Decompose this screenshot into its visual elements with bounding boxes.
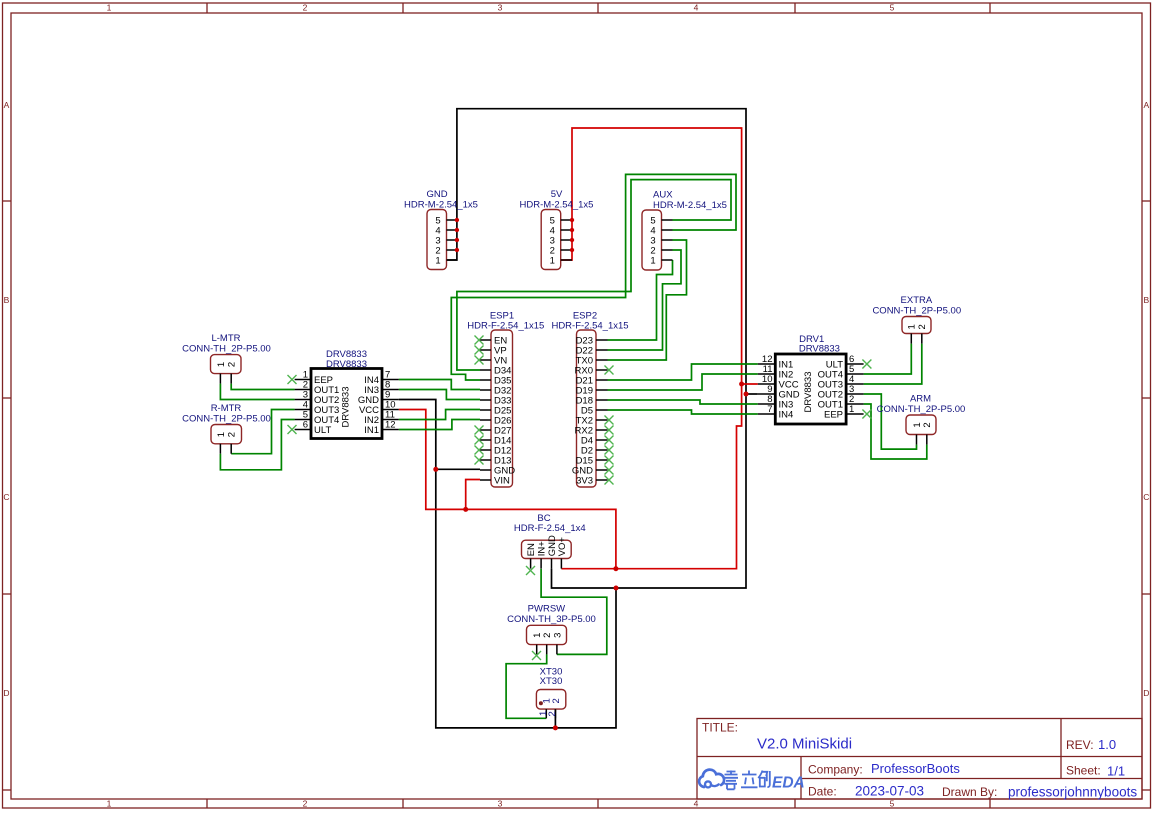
svg-text:2023-07-03: 2023-07-03 — [855, 784, 924, 799]
svg-text:D: D — [1143, 688, 1149, 698]
svg-text:2: 2 — [917, 324, 928, 329]
connector ESP2 HDR-F-2.54_1x15 — [551, 311, 628, 487]
wire GND net: header bus / top loop / right drop / BC GND run — [447, 109, 747, 588]
wire GND net: U1 pin9 to junction — [399, 400, 436, 470]
JLCEDA logo — [699, 770, 805, 792]
svg-text:IN4: IN4 — [779, 409, 794, 420]
wire L-MTR2 to U1 OUT1 — [231, 384, 294, 390]
svg-text:A: A — [4, 100, 10, 110]
wire U1 IN4 to ESP1 D32 — [399, 380, 480, 390]
svg-text:1: 1 — [107, 3, 112, 13]
svg-text:HDR-M-2.54_1x5: HDR-M-2.54_1x5 — [520, 200, 594, 211]
svg-text:5V: 5V — [551, 189, 563, 200]
junction dots GND bus — [455, 218, 459, 252]
connector EXTRA CONN-TH_2P-P5.00 — [872, 295, 961, 344]
no-connect X marks ESP2 — [605, 366, 614, 485]
svg-text:4: 4 — [694, 799, 699, 809]
svg-text:1: 1 — [650, 255, 655, 266]
svg-text:CONN-TH_2P-P5.00: CONN-TH_2P-P5.00 — [872, 305, 961, 316]
wire R-MTR2 to U1 OUT3 — [231, 410, 294, 454]
svg-text:1: 1 — [216, 362, 227, 367]
wire BC IN+ to PWRSW pin3 — [541, 569, 607, 655]
wire GND net: DRV1 pin9 — [746, 393, 758, 395]
svg-text:HDR-F-2.54_1x4: HDR-F-2.54_1x4 — [514, 523, 586, 534]
svg-text:1: 1 — [107, 799, 112, 809]
svg-text:ProfessorBoots: ProfessorBoots — [871, 761, 960, 776]
svg-text:B: B — [4, 295, 10, 305]
svg-text:DRV8833: DRV8833 — [803, 371, 814, 412]
no-connect X marks DRV1 — [862, 360, 871, 419]
junction ESP1 GND branch — [433, 467, 438, 472]
svg-text:Drawn By:: Drawn By: — [942, 785, 997, 799]
no-connect X marks ESP1 — [475, 336, 484, 465]
svg-text:V2.0 MiniSkidi: V2.0 MiniSkidi — [757, 736, 852, 753]
svg-text:1/1: 1/1 — [1107, 764, 1125, 779]
svg-text:CONN-TH_2P-P5.00: CONN-TH_2P-P5.00 — [877, 404, 966, 415]
svg-text:TITLE:: TITLE: — [702, 721, 738, 735]
svg-text:VO+: VO+ — [557, 537, 568, 557]
junction XT30 pin2 GND — [553, 725, 558, 730]
wire R-MTR1 to U1 OUT4 — [220, 420, 294, 470]
svg-text:EN: EN — [526, 543, 537, 556]
connector BC HDR-F-2.54_1x4 — [514, 513, 586, 569]
wire 5V net: riser to VIN rail — [399, 410, 616, 569]
connector GND HDR-M-2.54_1x5 — [404, 189, 478, 270]
wire GND net: XT30 pin2 drop — [554, 709, 556, 728]
connector ARM CONN-TH_2P-P5.00 — [877, 393, 966, 444]
wire ESP2 D21 to DRV1 IN1 — [608, 364, 758, 380]
junction DRV1 VCC — [739, 382, 744, 387]
title block — [697, 719, 1142, 800]
wire PWRSW pin2 to XT30 pin1 — [506, 654, 547, 718]
no-connect X mark PWRSW pin1 — [532, 651, 541, 660]
svg-text:IN1: IN1 — [364, 425, 379, 436]
svg-text:Company:: Company: — [808, 763, 863, 777]
wire ESP2 D5 to DRV1 IN4 — [608, 410, 758, 414]
svg-text:6: 6 — [303, 420, 308, 431]
svg-text:HDR-M-2.54_1x5: HDR-M-2.54_1x5 — [653, 200, 727, 211]
svg-text:REV:: REV: — [1066, 738, 1094, 752]
svg-text:5: 5 — [890, 3, 895, 13]
junction dots 5V bus — [570, 218, 574, 252]
svg-text:CONN-TH_2P-P5.00: CONN-TH_2P-P5.00 — [182, 343, 271, 354]
svg-text:DRV8833: DRV8833 — [799, 344, 840, 355]
no-connect X marks U1 — [288, 375, 297, 434]
svg-text:XT30: XT30 — [540, 676, 563, 687]
svg-text:ULT: ULT — [314, 425, 331, 436]
svg-text:Date:: Date: — [808, 785, 837, 799]
svg-text:PWRSW: PWRSW — [528, 604, 566, 615]
svg-text:1: 1 — [907, 324, 918, 329]
svg-text:2: 2 — [551, 698, 562, 703]
ic DRV1 DRV8833 right — [758, 334, 864, 424]
wire ESP2 D19 to DRV1 IN2 — [608, 374, 758, 390]
svg-text:2: 2 — [227, 432, 238, 437]
svg-text:HDR-M-2.54_1x5: HDR-M-2.54_1x5 — [404, 200, 478, 211]
wire AUX4 to ESP1 D35 — [451, 174, 736, 380]
svg-text:ARM: ARM — [910, 393, 931, 404]
connector R-MTR CONN-TH_2P-P5.00 — [182, 403, 271, 454]
svg-text:3: 3 — [498, 3, 503, 13]
svg-text:C: C — [3, 492, 9, 502]
wire AUX1 to ESP2 D23 — [608, 260, 673, 340]
wire U1 IN2 to ESP1 D25 — [399, 410, 480, 420]
svg-text:Sheet:: Sheet: — [1066, 764, 1101, 778]
svg-text:EXTRA: EXTRA — [901, 295, 933, 306]
svg-text:2: 2 — [227, 362, 238, 367]
wire DRV1 OUT4 to EXTRA pin1 — [864, 344, 912, 374]
svg-text:12: 12 — [385, 420, 396, 431]
svg-text:AUX: AUX — [653, 189, 673, 200]
wire U1 IN3 to ESP1 D33 — [399, 390, 480, 400]
wire 5V net: branch to ESP1 VIN — [466, 480, 480, 510]
svg-text:GND: GND — [426, 189, 447, 200]
svg-text:HDR-F-2.54_1x15: HDR-F-2.54_1x15 — [551, 321, 628, 332]
wire ESP2 D18 to DRV1 IN3 — [608, 400, 758, 404]
wire 5V net: DRV1 VCC — [742, 383, 758, 385]
junction GND rail — [614, 586, 619, 591]
svg-text:2: 2 — [547, 711, 558, 716]
wire DRV1 OUT2 to ARM pin1 — [864, 394, 917, 449]
wire AUX3 to ESP2 TX0 — [608, 240, 687, 360]
svg-text:professorjohnnyboots: professorjohnnyboots — [1008, 785, 1137, 800]
connector 5V HDR-M-2.54_1x5 — [520, 189, 594, 270]
svg-text:1: 1 — [849, 404, 854, 415]
svg-text:3V3: 3V3 — [576, 475, 593, 486]
wire GND net: junction to ESP1 GND — [436, 468, 480, 470]
junction DRV1 GND — [744, 392, 749, 397]
svg-text:L-MTR: L-MTR — [211, 333, 240, 344]
svg-text:3: 3 — [552, 633, 563, 638]
svg-text:5: 5 — [890, 799, 895, 809]
svg-text:1: 1 — [216, 432, 227, 437]
wire U1 IN1 to ESP1 D26 — [399, 420, 480, 430]
svg-text:DRV8833: DRV8833 — [340, 386, 351, 427]
connector ESP1 HDR-F-2.54_1x15 — [467, 311, 544, 487]
svg-text:A: A — [1143, 100, 1149, 110]
wire DRV1 OUT1 to ARM pin2 — [864, 404, 927, 459]
svg-text:C: C — [1143, 492, 1149, 502]
wire 5V net: header bus / top loop / right drop to BC VO+ — [561, 128, 741, 569]
no-connect X mark BC EN — [526, 566, 535, 575]
wire AUX5 to ESP1 D34 — [457, 180, 731, 370]
connector L-MTR CONN-TH_2P-P5.00 — [182, 333, 271, 384]
wire L-MTR1 to U1 OUT2 — [220, 384, 294, 400]
junction 5V rail BC VO+ — [613, 566, 618, 571]
svg-text:CONN-TH_2P-P5.00: CONN-TH_2P-P5.00 — [182, 413, 271, 424]
svg-text:EDA: EDA — [772, 774, 805, 791]
svg-text:IN+: IN+ — [537, 541, 548, 557]
svg-text:B: B — [1143, 295, 1149, 305]
connector XT30 — [536, 667, 565, 719]
svg-text:CONN-TH_3P-P5.00: CONN-TH_3P-P5.00 — [507, 614, 596, 625]
svg-text:4: 4 — [694, 3, 699, 13]
svg-text:2: 2 — [303, 3, 308, 13]
svg-text:1.0: 1.0 — [1098, 737, 1116, 752]
connector PWRSW CONN-TH_3P-P5.00 — [507, 604, 596, 655]
svg-text:1: 1 — [550, 255, 555, 266]
svg-text:DRV8833: DRV8833 — [326, 359, 367, 370]
wire DRV1 OUT3 to EXTRA pin2 — [864, 344, 922, 384]
svg-text:7: 7 — [767, 404, 772, 415]
svg-text:EEP: EEP — [824, 409, 843, 420]
wire AUX2 to ESP2 D22 — [608, 250, 682, 350]
svg-text:D: D — [3, 688, 9, 698]
svg-text:1: 1 — [435, 255, 440, 266]
svg-text:2: 2 — [303, 799, 308, 809]
svg-text:2: 2 — [922, 422, 933, 427]
svg-text:R-MTR: R-MTR — [211, 403, 242, 414]
connector AUX HDR-M-2.54_1x5 — [642, 189, 727, 270]
ic U1 DRV8833 left — [295, 349, 399, 439]
wire GND net: bottom loop — [436, 469, 616, 728]
svg-text:3: 3 — [498, 799, 503, 809]
junction ESP1 VIN branch — [463, 507, 468, 512]
svg-text:HDR-F-2.54_1x15: HDR-F-2.54_1x15 — [467, 321, 544, 332]
svg-text:VIN: VIN — [494, 475, 510, 486]
